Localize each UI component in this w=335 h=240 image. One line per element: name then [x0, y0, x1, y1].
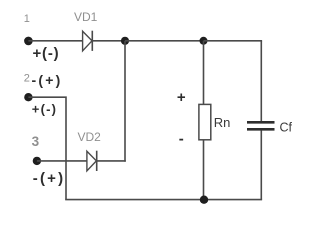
capacitor Cf — [247, 122, 275, 129]
wire terminal 2 right then down to bottom rail — [28, 97, 66, 199]
pin number 1 — [24, 13, 30, 25]
svg-text:VD2: VD2 — [78, 130, 102, 144]
node A junction — [121, 37, 129, 45]
Rn value label — [214, 115, 231, 130]
svg-text:+(-): +(-) — [33, 45, 60, 62]
node B junction — [200, 37, 208, 45]
VD1 value label — [74, 10, 98, 24]
wire VD2 cathode to node A vertical — [97, 160, 126, 162]
svg-text:-: - — [179, 130, 184, 147]
svg-text:+(-): +(-) — [32, 102, 57, 117]
polarity label -(+) terminal 3 — [33, 170, 66, 187]
svg-text:+: + — [177, 89, 186, 106]
VD2 value label — [78, 130, 102, 144]
wire VD1 cathode to node A — [92, 40, 125, 42]
wire Cf bottom plate to bottom-right corner — [260, 131, 262, 200]
polarity label +(-) terminal 2 — [32, 102, 57, 117]
polarity label -(+) terminal 2 — [32, 72, 63, 88]
polarity label +(-) terminal 1 — [33, 45, 60, 62]
plus polarity mark at Rn — [177, 89, 186, 106]
terminal 3 — [33, 157, 41, 165]
pin number 2 — [24, 73, 30, 85]
svg-text:1: 1 — [24, 13, 30, 25]
wire node A down to VD2 output — [124, 41, 126, 162]
svg-text:Cf: Cf — [280, 121, 293, 135]
wire node B to top-right corner — [204, 40, 263, 42]
diode VD2 — [87, 151, 97, 171]
bottom rail wire — [65, 199, 262, 201]
svg-text:3: 3 — [32, 134, 40, 149]
diode VD1 — [83, 31, 93, 51]
svg-text:VD1: VD1 — [74, 10, 98, 24]
svg-text:Rn: Rn — [214, 115, 231, 130]
terminal 1 — [24, 37, 33, 46]
wire node A to node B — [125, 40, 204, 42]
bottom junction node — [200, 196, 208, 204]
pin number 3 — [32, 134, 40, 149]
svg-text:-(+): -(+) — [33, 170, 66, 187]
svg-text:2: 2 — [24, 73, 30, 85]
Cf value label — [280, 121, 293, 135]
svg-text:-(+): -(+) — [32, 72, 63, 88]
wire top-right corner down to Cf top plate — [260, 41, 262, 121]
wire node B down to Rn top — [203, 41, 205, 105]
terminal 2 — [24, 93, 32, 101]
resistor Rn — [199, 104, 211, 139]
wire terminal 3 to VD2 anode — [37, 160, 87, 162]
wire terminal 1 to VD1 anode — [28, 40, 82, 42]
minus polarity mark at Rn — [179, 130, 184, 147]
wire Rn bottom to bottom node — [203, 140, 205, 200]
